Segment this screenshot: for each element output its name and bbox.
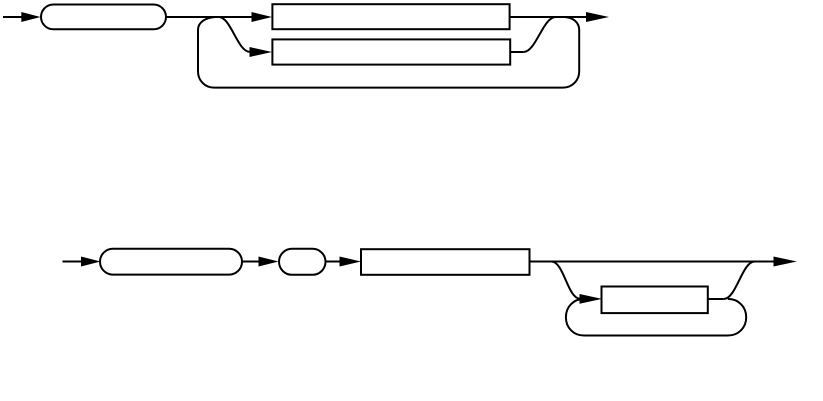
diagram 2 entry wire — [63, 261, 82, 263]
branch S-curve down to optional repeat row — [552, 262, 581, 299]
diagram 2 entry arrowhead — [81, 257, 101, 267]
wire after rule box 2 — [510, 51, 523, 53]
diagram 1 entry arrowhead — [21, 12, 40, 22]
wire after rule box 1 to exit — [510, 16, 587, 18]
rule box 2 (lower rectangle) — [272, 39, 510, 64]
rule box 4 (lower rectangle) — [602, 287, 708, 314]
arrowhead into rule box 2 — [250, 47, 273, 57]
arrowhead into rule box 1 — [252, 12, 273, 22]
diagram 1 exit arrowhead — [586, 12, 609, 22]
wire from small stadium to rule box — [326, 261, 341, 263]
wire from stadium to branch point — [166, 16, 252, 18]
diagram 2 exit arrowhead — [774, 257, 797, 267]
S-curve from row 2 up to main line — [524, 17, 556, 52]
branch S-curve from main line down to row 2 — [219, 17, 250, 52]
wire after rule box 4 — [708, 298, 724, 300]
rule box 3 (rectangle) — [361, 249, 530, 275]
diagram 1 entry wire — [3, 16, 22, 18]
diagram 1 terminal stadium box — [41, 5, 166, 30]
arrowhead into rule box 4 — [580, 294, 603, 304]
S-curve from repeat row up to main line — [724, 262, 755, 300]
wire from stadium to small stadium — [242, 261, 259, 263]
small terminal stadium box — [279, 249, 326, 275]
arrowhead into small stadium — [259, 257, 279, 267]
arrowhead into rule box 3 — [340, 257, 362, 267]
repeat loop of diagram 2 — [566, 299, 746, 336]
diagram 2 main wire to exit — [530, 261, 775, 263]
diagram 2 terminal stadium box — [100, 249, 242, 275]
rule box 1 (top rectangle) — [272, 4, 509, 29]
repeat loop of diagram 1 — [198, 17, 579, 88]
